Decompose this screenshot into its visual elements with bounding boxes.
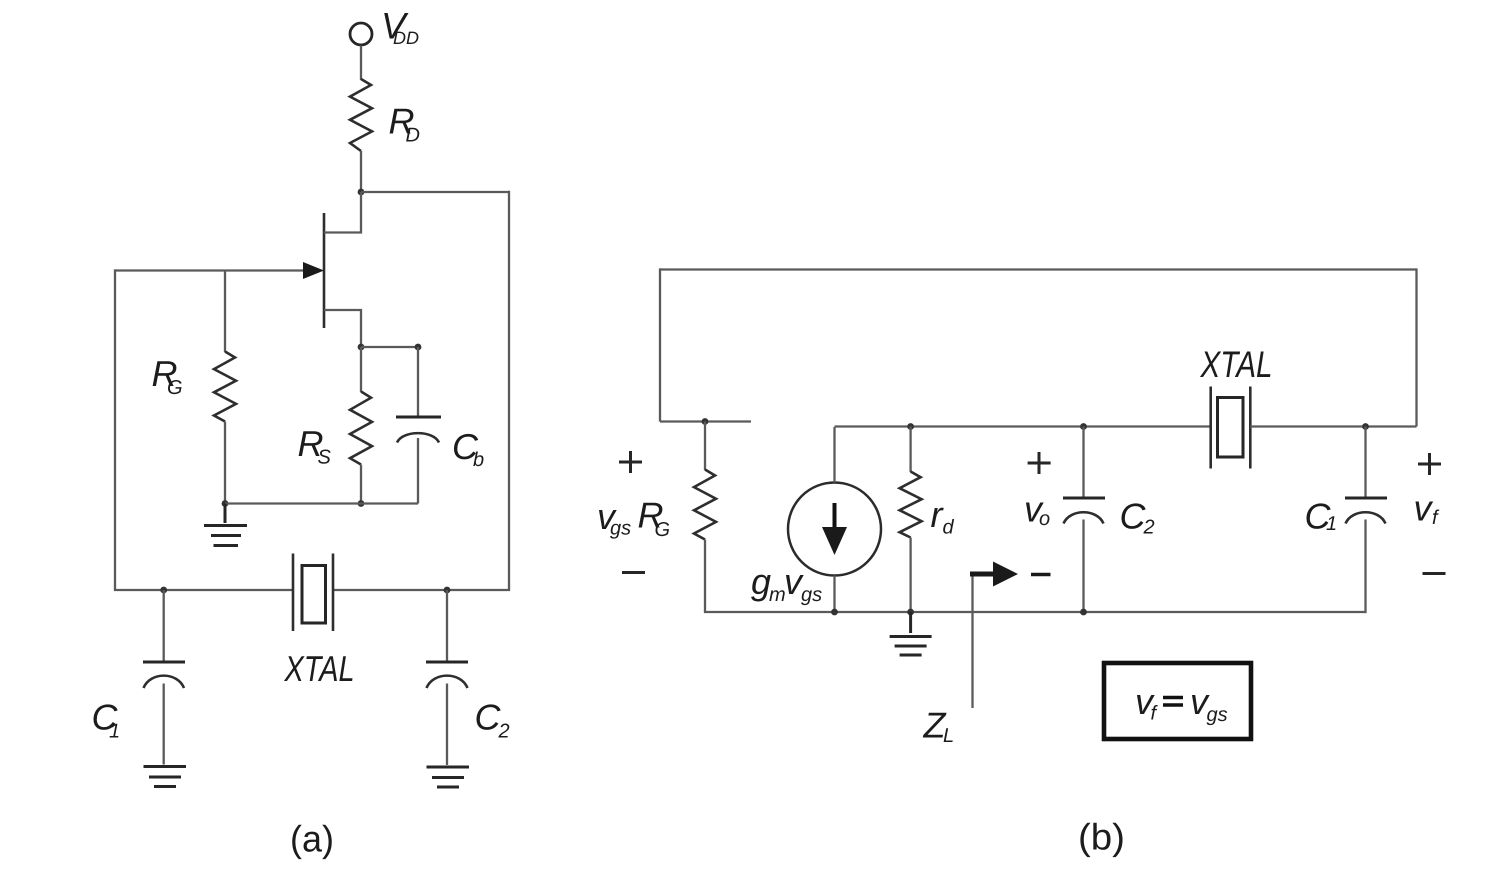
label C2-b (1120, 496, 1155, 539)
node Cb top junction (415, 344, 422, 351)
label vf (1414, 488, 1441, 530)
svg-text:C: C (1120, 496, 1147, 537)
label RG-b (638, 495, 671, 542)
label RD (389, 101, 420, 147)
wire RG-b top lead (704, 422, 706, 471)
label minus vf (1423, 572, 1446, 575)
wire bottom rail left (114, 589, 293, 591)
node gate junction (702, 418, 709, 425)
label plus vf (1418, 453, 1441, 475)
transistor Q1 source lead (324, 310, 361, 347)
svg-text:b: b (473, 449, 484, 471)
crystal XTAL plates (293, 554, 333, 632)
label vo (1024, 489, 1050, 531)
wire RG-b bottom lead (704, 540, 706, 613)
crystal XTAL body (302, 566, 326, 624)
current source gm-vgs circle (788, 483, 881, 576)
wire gate stub (660, 420, 751, 422)
current source arrow shaft (833, 503, 837, 531)
wire current source bottom lead (833, 576, 835, 613)
wire RS top lead (360, 347, 362, 392)
capacitor C2-b curved plate (1064, 512, 1104, 523)
ground symbol at rd (890, 612, 932, 655)
capacitor C1 top lead (163, 590, 165, 662)
wire source node to Cb (361, 346, 418, 348)
svg-text:(b): (b) (1078, 817, 1125, 858)
CIRCUIT-A (92, 6, 511, 860)
svg-text:2: 2 (498, 721, 510, 743)
node rd top junction (907, 423, 914, 430)
svg-text:d: d (943, 517, 955, 539)
svg-text:(a): (a) (290, 819, 334, 860)
svg-text:v: v (1414, 488, 1434, 529)
node C2 junction (444, 587, 451, 594)
label minus vgs (622, 571, 645, 574)
wire output rail right of crystal (1250, 425, 1416, 427)
svg-text:1: 1 (109, 721, 120, 743)
ground symbol at RG (204, 504, 247, 546)
svg-text:G: G (655, 519, 671, 541)
label C2 (475, 697, 510, 743)
supply terminal VDD (350, 23, 372, 45)
svg-text:XTAL: XTAL (1200, 344, 1273, 385)
wire gate (115, 269, 319, 271)
resistor RG-b (694, 470, 716, 540)
label VDD (381, 6, 419, 49)
svg-text:gs: gs (610, 518, 631, 540)
capacitor Cb bottom lead (417, 438, 419, 504)
wire current source top lead (833, 427, 835, 483)
node C2-b bottom junction (1080, 609, 1087, 616)
capacitor C2 curved plate (427, 676, 468, 688)
transistor Q1 drain lead (324, 192, 361, 233)
node rd bottom junction (907, 609, 914, 616)
wire ground bus (225, 502, 418, 504)
label C1 (92, 697, 121, 743)
node current source bottom junction (831, 609, 838, 616)
wire RG top lead (224, 271, 226, 353)
capacitor Cb curved plate (397, 433, 439, 442)
wire right rail vertical (1415, 268, 1417, 426)
svg-text:L: L (943, 725, 954, 747)
transistor Q1 gate arrow (303, 262, 324, 279)
node source junction (358, 344, 365, 351)
equation vf = vgs (1135, 681, 1228, 726)
capacitor C2 top plate (426, 661, 468, 664)
wire rd bottom lead (909, 538, 911, 613)
crystal XTAL-b body (1218, 398, 1244, 458)
svg-text:gs: gs (801, 584, 822, 606)
wire rd top lead (909, 427, 911, 473)
label rd (931, 494, 955, 539)
capacitor C2 bottom lead (446, 684, 448, 766)
node RG ground junction (222, 500, 229, 507)
label gm vgs (751, 561, 822, 606)
wire output node rail (835, 425, 1211, 427)
wire left rail vertical (114, 269, 116, 590)
capacitor C2-b top lead (1082, 427, 1084, 499)
ground symbol at C1 (144, 767, 187, 787)
svg-text:G: G (167, 377, 183, 399)
label ZL (923, 705, 955, 748)
current source arrow head (822, 527, 847, 555)
capacitor C1 top plate (143, 661, 185, 664)
svg-text:XTAL: XTAL (284, 648, 355, 689)
svg-text:f: f (1432, 507, 1440, 529)
label plus vgs (619, 451, 642, 473)
wire feedback top rail (660, 268, 1417, 270)
label Cb (452, 426, 484, 471)
wire right rail vertical (508, 191, 510, 590)
transistor Q1 JFET channel (323, 213, 326, 328)
svg-text:gs: gs (1207, 704, 1228, 726)
wire RS bottom lead (360, 465, 362, 504)
svg-text:S: S (318, 447, 332, 469)
capacitor C2 top lead (446, 590, 448, 662)
capacitor C2-b bottom lead (1082, 520, 1084, 613)
label C1-b (1305, 496, 1338, 537)
CIRCUIT-B (597, 268, 1446, 857)
capacitor C2-b top plate (1063, 497, 1105, 500)
svg-text:1: 1 (1326, 513, 1337, 535)
svg-text:DD: DD (393, 28, 419, 48)
svg-text:D: D (406, 125, 420, 147)
load impedance ZL arrow head (993, 562, 1018, 587)
node C1-b top junction (1362, 423, 1369, 430)
wire RD to drain node (360, 151, 362, 192)
resistor RG (214, 352, 236, 422)
resistor rd (900, 472, 922, 538)
ground symbol at C2 (427, 767, 470, 787)
node RS ground junction (358, 500, 365, 507)
crystal XTAL-b plates (1211, 387, 1251, 469)
capacitor C1 bottom lead (163, 684, 165, 765)
label minus vo (1031, 573, 1051, 576)
node C2-b top junction (1080, 423, 1087, 430)
resistor RD (350, 79, 372, 151)
node C1 junction (160, 587, 167, 594)
capacitor Cb top lead (417, 347, 419, 417)
label plus vo (1028, 452, 1051, 474)
resistor RS (350, 392, 372, 465)
svg-text:o: o (1039, 508, 1050, 530)
wire left rail vertical (659, 268, 661, 421)
capacitor C1-b top lead (1364, 427, 1366, 499)
wire drain node to right rail (361, 191, 509, 193)
capacitor C1-b top plate (1345, 497, 1387, 500)
equation box (1104, 663, 1251, 739)
capacitor C1 curved plate (144, 676, 185, 688)
capacitor C1-b bottom lead (1364, 520, 1366, 614)
label vgs (597, 496, 631, 540)
svg-text:2: 2 (1143, 517, 1155, 539)
svg-text:C: C (475, 697, 502, 738)
load impedance ZL lead (971, 574, 973, 708)
node drain junction (358, 189, 365, 196)
wire bottom rail right (333, 589, 510, 591)
label RS (298, 423, 332, 469)
wire VDD to RD (360, 46, 362, 81)
wire RG bottom lead (224, 422, 226, 504)
wire bottom rail (704, 611, 1366, 613)
label RG (152, 353, 183, 399)
capacitor Cb top plate (396, 416, 441, 419)
capacitor C1-b curved plate (1346, 512, 1386, 523)
